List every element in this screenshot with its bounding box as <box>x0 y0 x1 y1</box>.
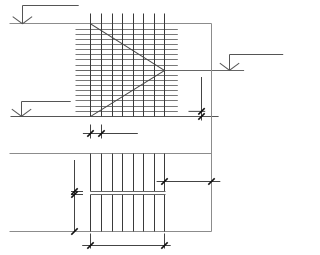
break chevron <box>91 24 165 117</box>
lower landing line L3 <box>11 116 219 118</box>
dim D ticks <box>161 178 214 184</box>
upper floor line L1 <box>10 23 212 25</box>
dim B below left <box>83 125 138 139</box>
dim B ticks <box>87 130 104 136</box>
landing floor line L4 <box>10 153 212 155</box>
vertical grid lines top <box>91 14 165 117</box>
dim C ticks <box>71 188 77 234</box>
stairwell gap lines <box>91 192 166 195</box>
vertical treads bottom (two flights) <box>91 154 165 232</box>
dim E ticks <box>87 242 167 248</box>
leader 2 mid-left <box>12 102 71 117</box>
leader 1 top-left <box>13 6 79 24</box>
dim A right middle <box>189 77 206 121</box>
leader 3 right <box>220 55 283 71</box>
right wall line R <box>211 24 213 232</box>
section line L2 <box>76 70 245 72</box>
treads horizontal <box>76 30 178 112</box>
dim E bottom <box>82 234 171 249</box>
dim A ticks <box>198 108 204 120</box>
bottom floor line L5 <box>10 231 212 233</box>
dim D landing width <box>157 181 221 183</box>
dim C left vertical <box>71 160 83 232</box>
